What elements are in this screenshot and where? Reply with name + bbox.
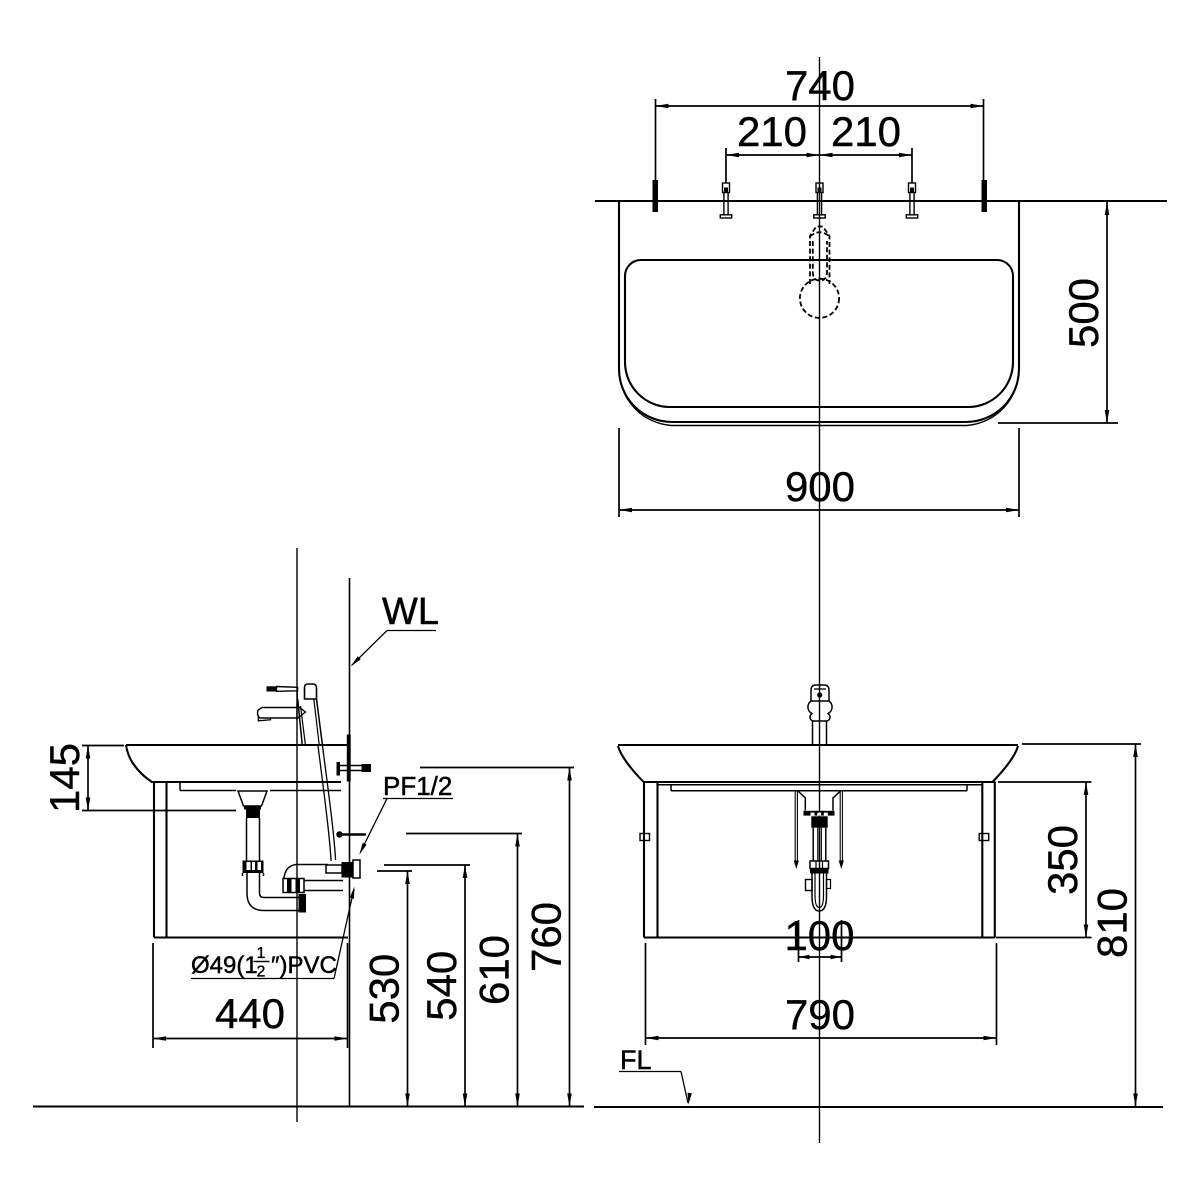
svg-text:210: 210 (831, 108, 901, 155)
svg-text:1: 1 (257, 945, 266, 962)
svg-text:760: 760 (523, 902, 570, 972)
svg-text:810: 810 (1089, 888, 1136, 958)
svg-text:PF1/2: PF1/2 (383, 771, 452, 801)
svg-text:FL: FL (620, 1045, 652, 1075)
svg-text:350: 350 (1039, 825, 1086, 895)
svg-text:790: 790 (785, 991, 855, 1038)
svg-text:900: 900 (785, 463, 855, 510)
svg-text:500: 500 (1060, 278, 1107, 348)
svg-text:210: 210 (737, 108, 807, 155)
svg-text:″)PVC: ″)PVC (271, 952, 337, 979)
svg-text:610: 610 (471, 935, 518, 1005)
svg-text:740: 740 (785, 62, 855, 109)
svg-text:100: 100 (784, 912, 854, 959)
svg-text:530: 530 (361, 954, 408, 1024)
svg-text:WL: WL (382, 591, 439, 633)
svg-text:145: 145 (41, 743, 88, 813)
svg-text:540: 540 (418, 951, 465, 1021)
svg-text:440: 440 (215, 990, 285, 1037)
svg-text:Ø49(1: Ø49(1 (191, 952, 258, 979)
